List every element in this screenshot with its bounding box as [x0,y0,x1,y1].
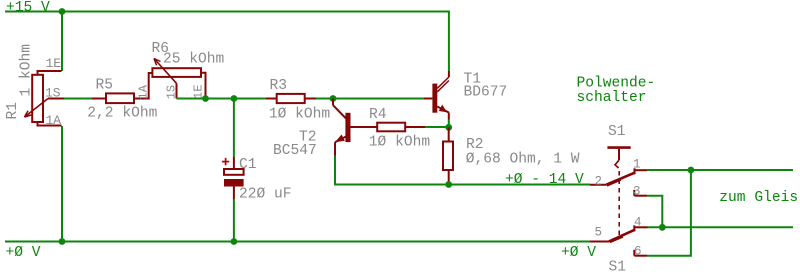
svg-text:R3: R3 [270,78,288,94]
wire T1 emitter to node [448,120,450,128]
svg-text:1Ø kOhm: 1Ø kOhm [369,134,431,150]
switch S1 bottom pole [590,225,648,255]
wire switch pin 6 jog [647,170,691,256]
svg-text:+15 V: +15 V [6,0,50,16]
wire from +15V rail down to R1 pin 1E [61,12,63,72]
svg-text:BC547: BC547 [273,143,317,159]
svg-text:+Ø V: +Ø V [6,245,41,261]
wire R3 to T1 base [316,98,424,100]
junction on +15V rail above R1 [59,8,66,15]
junction 0V rail below C1 [231,238,238,245]
junction pin1/pin6 output [688,167,695,174]
wire output 0-14V row [334,184,590,186]
wire +15V rail down to T1 collector [448,12,450,72]
svg-text:4: 4 [634,216,642,230]
svg-text:zum Gleis: zum Gleis [719,190,798,206]
potentiometer R1 [25,71,65,126]
junction pin3/pin4 output [659,224,666,231]
svg-text:6: 6 [634,245,642,259]
svg-text:1A: 1A [46,113,62,128]
svg-text:1 kOhm: 1 kOhm [18,44,34,97]
wire T2 emitter down [334,156,336,185]
transistor T1 BD677 [424,71,449,120]
junction C1 branch [231,95,238,102]
junction R6 1E on wire [202,95,209,102]
wire down to C1 [233,99,235,158]
svg-text:R2: R2 [466,137,484,153]
svg-text:S1: S1 [608,124,626,140]
svg-text:1S: 1S [45,85,61,100]
svg-text:+Ø V: +Ø V [561,245,596,261]
svg-text:R5: R5 [96,78,114,94]
svg-text:1A: 1A [136,84,150,99]
transistor T2 BC547 [333,99,377,156]
resistor R4 [377,123,425,132]
svg-text:+Ø - 14 V: +Ø - 14 V [505,172,584,188]
svg-text:1Ø kOhm: 1Ø kOhm [269,107,331,123]
wire switch pin 1 to output [647,169,793,171]
resistor R2 [443,127,453,184]
svg-text:R1: R1 [5,102,21,120]
junction T2 collector node [330,95,337,102]
wire R4 to T1 emitter node [425,126,449,128]
wire R6 wiper to R3 [177,98,267,100]
junction 0V rail below R1 [59,238,66,245]
svg-text:1E: 1E [46,56,62,71]
wire C1 to 0V rail [233,199,235,242]
trimmer potentiometer R6 [152,59,205,99]
svg-text:1: 1 [633,158,641,172]
svg-text:1S: 1S [164,85,178,99]
svg-text:5: 5 [595,226,603,240]
resistor R5 [92,73,152,103]
wire switch pin 3 jog [647,196,662,228]
svg-text:25 kOhm: 25 kOhm [163,52,225,68]
svg-text:BD677: BD677 [464,84,508,100]
svg-text:22Ø uF: 22Ø uF [239,187,292,203]
svg-text:C1: C1 [239,157,257,173]
wire from R1 pin 1A down to 0V rail [61,126,63,242]
svg-text:schalter: schalter [577,90,647,106]
svg-text:3: 3 [633,185,641,199]
svg-text:S1: S1 [609,260,627,275]
svg-text:2,2 kOhm: 2,2 kOhm [87,105,157,121]
wire +15V top rail [5,11,450,13]
svg-text:R4: R4 [369,107,387,123]
svg-text:Ø,68 Ohm, 1 W: Ø,68 Ohm, 1 W [466,152,580,168]
svg-text:Polwende-: Polwende- [577,75,656,91]
junction T1 emitter / R4 / R2 [445,124,452,131]
wire R1 wiper to R5 [64,98,92,100]
resistor R3 [266,94,316,103]
wire switch pin 4 to output [648,226,794,228]
capacitor C1 [222,157,244,199]
junction R2 bottom on output wire [445,181,452,188]
wire 0V bottom rail [5,241,590,243]
switch S1 top pole [590,148,647,238]
svg-text:2: 2 [595,174,603,188]
